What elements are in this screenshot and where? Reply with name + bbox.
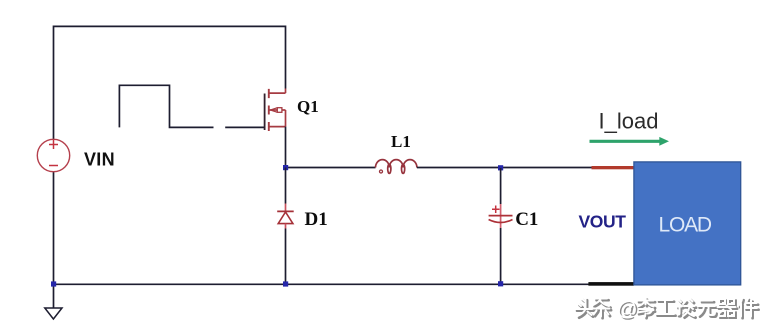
transistor Q1 (265, 89, 286, 132)
body lead with arrow (269, 109, 278, 111)
watermark char 头 (576, 299, 595, 318)
wire bottom rail (54, 283, 591, 285)
ground (53, 284, 55, 308)
wire inductor to C1 node and on to load lead (417, 167, 592, 169)
voltage source VIN circle (37, 139, 69, 171)
pulse source waveform (119, 85, 213, 127)
node ground junction (51, 281, 56, 286)
capacitor C1 bottom plate arc (489, 220, 513, 223)
svg-text:L1: L1 (391, 132, 411, 151)
load box (634, 162, 741, 285)
diode D1 cathode bar (277, 210, 294, 212)
wire gate segment (225, 126, 264, 128)
body-source tie (285, 110, 287, 127)
diode D1 triangle (278, 212, 293, 224)
watermark 头条 @李工谈元器件 (576, 298, 759, 318)
svg-text:VOUT: VOUT (579, 212, 627, 232)
node diode bottom junction (283, 281, 288, 286)
node C1 bottom junction (498, 281, 503, 286)
svg-text:@: @ (617, 298, 638, 321)
source lead (269, 126, 286, 128)
wire diode top lead (285, 168, 287, 204)
wire top rail from VIN to Q1 drain (54, 26, 286, 139)
arrow I_load green (590, 140, 661, 143)
svg-text:Q1: Q1 (297, 97, 319, 116)
wire C1 bottom (500, 228, 502, 284)
watermark char 元 (698, 301, 717, 317)
minus sign of source (49, 165, 58, 167)
watermark char 工 (656, 300, 676, 316)
wire black thick lead bottom to load (588, 282, 634, 286)
drain stub (285, 89, 287, 94)
node switch junction (283, 165, 288, 170)
diode D1 red lead bottom (285, 224, 287, 229)
wire diode bottom (285, 229, 287, 285)
wire switch node to inductor (286, 167, 376, 169)
watermark char 条 (593, 298, 612, 318)
watermark char 器 (718, 299, 738, 318)
drain lead (269, 92, 286, 94)
watermark char 谈 (677, 299, 696, 318)
channel segments (268, 89, 270, 131)
diode D1 red lead top (285, 204, 287, 212)
watermark char 李 (638, 298, 656, 318)
capacitor C1 red lead (500, 204, 502, 228)
svg-text:D1: D1 (305, 209, 328, 230)
watermark char 件 (739, 299, 759, 319)
wire red thick lead to load (592, 166, 635, 169)
wire VIN bottom lead (53, 172, 55, 285)
node C1 top junction (498, 165, 503, 170)
capacitor C1 top plate (489, 215, 513, 217)
svg-text:LOAD: LOAD (659, 214, 712, 237)
wire C1 top lead (500, 168, 502, 204)
svg-text:I_load: I_load (599, 108, 659, 133)
svg-text:VIN: VIN (84, 150, 115, 170)
gate bar (264, 94, 266, 131)
capacitor C1 plus (492, 206, 500, 214)
inductor L1 (376, 160, 417, 174)
svg-text:C1: C1 (515, 209, 538, 230)
wire Q1 source to switch node (285, 127, 287, 168)
plus sign of source (49, 140, 58, 149)
